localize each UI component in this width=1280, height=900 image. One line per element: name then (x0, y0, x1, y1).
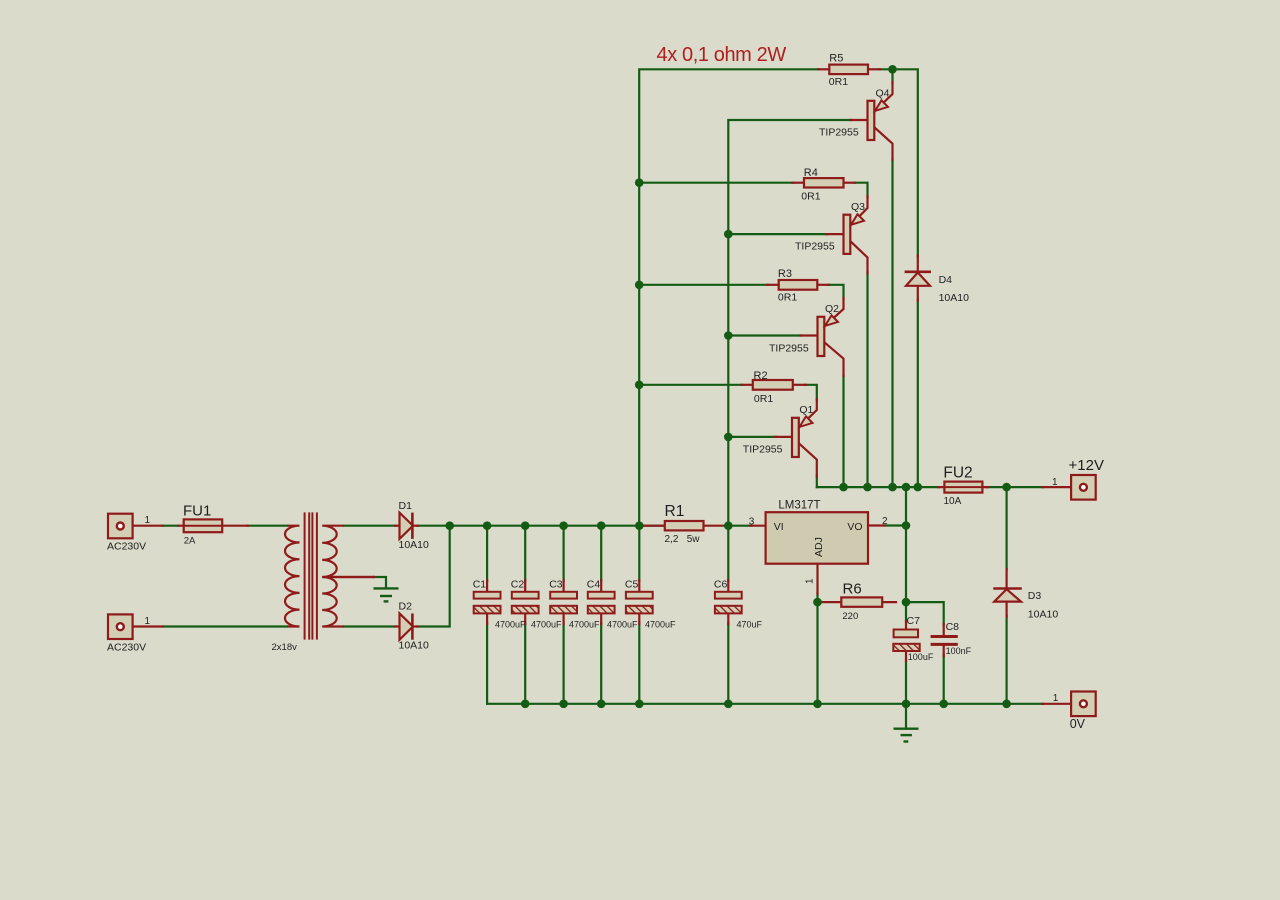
pin R5 left stub (818, 68, 829, 70)
node ground rail C5 (635, 700, 644, 709)
svg-text:AC230V: AC230V (107, 642, 146, 654)
svg-text:ADJ: ADJ (813, 537, 825, 557)
svg-text:2A: 2A (184, 536, 196, 547)
fuse FU2 (944, 482, 982, 493)
svg-text:0R1: 0R1 (801, 191, 820, 203)
transformer core lines (305, 512, 317, 639)
svg-text:0R1: 0R1 (754, 393, 773, 405)
wire Q3 collector to rail (866, 273, 868, 488)
pin D4 top stub (917, 255, 919, 271)
svg-text:2x18v: 2x18v (272, 642, 298, 653)
diode D2 (400, 613, 414, 639)
svg-text:4x 0,1 ohm 2W: 4x 0,1 ohm 2W (657, 44, 787, 66)
wire C7 bottom stem (905, 660, 907, 704)
pin C3 top stub (562, 580, 564, 592)
wire R3 row from left rail (639, 284, 768, 286)
pin C4 top stub (600, 580, 602, 592)
wire VO pin to vertical (884, 524, 906, 526)
pin R4 right stub (844, 182, 856, 184)
pin D1 cathode stub (413, 525, 418, 527)
svg-text:4700uF: 4700uF (495, 620, 526, 630)
wire base Q1 (728, 436, 776, 438)
node ground rail C8 (939, 700, 948, 709)
wire R6 right node to C8 top corner (906, 602, 944, 625)
resistor R4 (804, 178, 844, 187)
wire R2 right corner down to Q1 emitter (805, 385, 817, 400)
node ground rail C4 (597, 700, 606, 709)
wire Q2 collector to rail (842, 375, 844, 487)
pin R6 right stub (882, 601, 896, 603)
pin R3 left stub (767, 284, 779, 286)
node ground rail D3 (1002, 700, 1011, 709)
svg-text:10A10: 10A10 (399, 640, 430, 652)
svg-text:Q2: Q2 (825, 303, 839, 315)
pin R4 left stub (793, 182, 805, 184)
pin R2 right stub (793, 384, 806, 386)
pin D4 bottom stub (917, 286, 919, 301)
svg-text:100uF: 100uF (908, 652, 934, 662)
wire ADJ node down to bottom rail (816, 602, 818, 704)
node left rail R4 row (635, 178, 644, 187)
node ground rail C2 (521, 700, 530, 709)
fuse FU1 (184, 519, 223, 532)
capacitor C1 (474, 592, 501, 614)
wire C6 bottom stem (727, 623, 729, 704)
svg-text:4700uF: 4700uF (569, 620, 600, 630)
capacitor C5 (626, 592, 653, 614)
svg-text:C1: C1 (473, 579, 487, 591)
wire D2 cathode up to node A (417, 526, 450, 627)
diode D1 (400, 513, 414, 539)
resistor R6 (841, 597, 882, 606)
pin C1 bottom stub (486, 614, 488, 625)
diode D3 (993, 589, 1022, 602)
svg-text:3: 3 (749, 516, 755, 527)
wire C3 top stem (562, 526, 564, 581)
transistor Q4 body (868, 100, 889, 140)
wire Q4 collector to rail (891, 159, 893, 488)
pin Q2 emitter lead (825, 298, 844, 326)
node base rail Q3 (724, 230, 733, 239)
pin +12V terminal stub (1042, 486, 1070, 488)
pin C5 top stub (638, 580, 640, 592)
node C5 left-rail bus junction (635, 521, 644, 530)
pin Q4 collector lead (875, 127, 893, 159)
terminal T1 AC230V top (108, 514, 133, 539)
transistor Q1 body (792, 416, 813, 457)
pin C2 top stub (524, 580, 526, 592)
wire R5 right to Q4 emitter junction and D4 branch (879, 69, 918, 256)
diode D4 (905, 272, 931, 286)
wire R2 row from left rail (639, 384, 742, 386)
svg-text:TIP2955: TIP2955 (795, 240, 835, 252)
pin Q4 emitter lead (875, 82, 893, 111)
svg-text:1: 1 (1053, 693, 1059, 704)
wire R4 right corner down to Q3 emitter (854, 183, 868, 197)
node R5 right junction (888, 65, 897, 74)
pin FU2 through-line (938, 486, 988, 488)
wire R6 node down to C7 (905, 602, 907, 622)
wire bottom ground rail (487, 703, 1043, 705)
svg-text:1: 1 (805, 578, 816, 584)
pin Q3 emitter lead (851, 196, 868, 225)
pin Q4 base stub (851, 119, 868, 121)
svg-text:D3: D3 (1028, 590, 1042, 602)
svg-text:Q3: Q3 (851, 201, 865, 213)
wire FU2 to D3 node (987, 486, 1007, 488)
pin D3 bottom stub (1005, 602, 1007, 617)
capacitor C6 (715, 592, 742, 614)
svg-text:C4: C4 (587, 579, 601, 591)
node base rail Q2 (724, 331, 733, 340)
node C3 bus junction (559, 521, 568, 530)
pin C6 bottom stub (727, 614, 729, 625)
svg-text:100nF: 100nF (946, 646, 972, 656)
svg-text:TIP2955: TIP2955 (769, 343, 809, 355)
node R1 right C6 junction (724, 521, 733, 530)
svg-text:4700uF: 4700uF (645, 620, 676, 630)
terminal T2 AC230V bottom (108, 614, 133, 639)
wire VO vertical to rail (905, 487, 907, 525)
ground at transformer center tap (374, 588, 399, 601)
svg-text:10A10: 10A10 (939, 292, 970, 304)
svg-text:TIP2955: TIP2955 (819, 127, 859, 139)
wire C8 bottom stem (943, 655, 945, 704)
svg-text:4700uF: 4700uF (607, 620, 638, 630)
svg-text:1: 1 (145, 616, 151, 627)
node base rail Q1 (724, 433, 733, 442)
wire C3 bottom stem (562, 623, 564, 704)
svg-text:+12V: +12V (1069, 457, 1104, 474)
resistor R3 (779, 280, 818, 290)
wire Q1 collector to rail (816, 476, 818, 488)
node left rail R2 row (635, 381, 644, 390)
svg-text:R6: R6 (843, 580, 862, 597)
wire D4 bottom to rail (917, 300, 919, 487)
svg-text:TIP2955: TIP2955 (743, 444, 783, 456)
node rail Q2 collector (839, 483, 848, 492)
transformer secondary winding top (322, 526, 375, 577)
svg-text:D4: D4 (939, 274, 953, 286)
node rail VO vertical (902, 483, 911, 492)
pin Q1 collector lead (799, 443, 817, 476)
pin Q1 emitter lead (799, 399, 817, 427)
wire T1 to FU1 (162, 525, 179, 527)
wire C5 bottom stem (638, 623, 640, 704)
pin D3 top stub (1005, 569, 1007, 588)
wire center tap to ground (374, 577, 386, 588)
svg-text:4700uF: 4700uF (531, 620, 562, 630)
wire collector rail (817, 486, 939, 488)
pin C3 bottom stub (562, 614, 564, 625)
wire C2 bottom stem (524, 623, 526, 704)
wire R4 row from left rail (639, 182, 793, 184)
wire C1 bottom stem to rail corner (486, 623, 488, 704)
capacitor C4 (588, 592, 615, 614)
svg-text:0R1: 0R1 (778, 292, 797, 304)
pin FU1 through-line (178, 525, 248, 527)
pin C7 bottom stub (905, 651, 907, 661)
svg-text:C6: C6 (714, 579, 728, 591)
svg-text:Q1: Q1 (799, 404, 813, 416)
transistor Q3 body (844, 214, 865, 254)
pin C7 top stub (905, 621, 907, 630)
wire C4 bottom stem (600, 623, 602, 704)
node left rail R3 row (635, 281, 644, 290)
transformer secondary winding bottom (322, 577, 375, 627)
node C4 bus junction (597, 521, 606, 530)
svg-text:LM317T: LM317T (778, 499, 820, 511)
pin LM317 VO stub (868, 524, 885, 526)
transformer TR primary winding (285, 526, 300, 627)
svg-text:220: 220 (842, 611, 858, 622)
svg-text:R1: R1 (665, 503, 685, 520)
wire VI pin from bus (728, 525, 751, 527)
pin R6 left stub (818, 601, 842, 603)
pin T1 terminal stub (134, 525, 163, 527)
svg-text:R5: R5 (829, 53, 843, 65)
svg-text:C8: C8 (946, 621, 960, 633)
svg-text:10A10: 10A10 (399, 539, 430, 551)
node rail D3 (1002, 483, 1011, 492)
svg-text:VO: VO (847, 521, 862, 533)
svg-text:C7: C7 (907, 615, 921, 627)
terminal +12V (1071, 475, 1096, 500)
pin Q1 base stub (775, 436, 792, 438)
node rail Q4 collector (888, 483, 897, 492)
pin C6 top stub (727, 580, 729, 592)
pin C4 bottom stub (600, 614, 602, 625)
svg-text:10A10: 10A10 (1028, 608, 1059, 620)
wire ground stem at C7 (905, 704, 907, 729)
wire VO vertical down to R6 node (905, 526, 907, 603)
svg-text:VI: VI (774, 521, 784, 533)
node ground rail ADJ (813, 700, 822, 709)
wire FU1 to transformer primary (247, 525, 287, 527)
node C2 bus junction (521, 521, 530, 530)
svg-text:FU1: FU1 (183, 503, 211, 520)
pin C8 top stub (943, 624, 945, 635)
svg-text:10A: 10A (944, 496, 962, 507)
wire C5 top stem (638, 526, 640, 581)
pin R1 left stub (639, 525, 665, 527)
wire D3 node to +12V terminal (1007, 486, 1043, 488)
pin R3 right stub (817, 284, 829, 286)
pin C2 bottom stub (524, 614, 526, 625)
wire T2 to transformer primary bottom (162, 625, 287, 627)
svg-text:0R1: 0R1 (829, 76, 848, 88)
capacitor C2 (512, 592, 539, 614)
pin R5 right stub (868, 68, 880, 70)
wire base rail x728 (728, 120, 851, 526)
pin 0V terminal stub (1042, 703, 1070, 705)
wire D3 top from collector rail node (1005, 487, 1007, 570)
wire C2 top stem (524, 526, 526, 581)
pin C5 bottom stub (638, 614, 640, 625)
svg-text:C2: C2 (511, 579, 525, 591)
wire R3 right corner down to Q2 emitter (828, 285, 844, 299)
resistor R1 (665, 521, 704, 530)
svg-text:C5: C5 (625, 579, 639, 591)
pin C1 top stub (486, 580, 488, 592)
ground at C7 bottom (894, 729, 919, 742)
svg-text:R3: R3 (778, 268, 792, 280)
wire transformer secondary top to D1 anode (344, 525, 396, 527)
pin LM317 VI stub (750, 525, 766, 527)
node ground rail C3 (559, 700, 568, 709)
fuse FU2 element line (944, 486, 982, 488)
wire transformer secondary bottom to D2 anode (344, 625, 396, 627)
svg-text:470uF: 470uF (737, 620, 763, 630)
capacitor C8 (931, 637, 958, 645)
svg-text:1: 1 (145, 515, 151, 526)
svg-text:0V: 0V (1070, 717, 1086, 731)
svg-text:FU2: FU2 (943, 465, 972, 482)
node C1 bus junction (483, 521, 492, 530)
capacitor C3 (550, 592, 577, 614)
node ADJ R6 junction (813, 598, 822, 607)
node A D1/D2 junction (445, 521, 454, 530)
pin Q2 collector lead (825, 342, 844, 376)
terminal 0V (1071, 692, 1096, 717)
svg-text:1: 1 (1052, 477, 1058, 488)
node R6 right C7 junction (902, 598, 911, 607)
pin D2 anode stub (395, 625, 400, 627)
pin C8 bottom stub (943, 646, 945, 656)
node ground rail C6 (724, 700, 733, 709)
svg-text:C3: C3 (549, 579, 563, 591)
svg-text:AC230V: AC230V (107, 541, 146, 553)
node VO pin junction (902, 521, 911, 530)
node ground rail C7 (902, 700, 911, 709)
pin Q2 base stub (801, 334, 818, 336)
transistor Q2 body (818, 315, 839, 356)
pin D2 cathode stub (413, 625, 418, 627)
wire main bus node A to R1 (450, 525, 665, 527)
wire ADJ pin to R6 node (816, 593, 818, 602)
pin Q3 collector lead (851, 241, 868, 273)
fuse FU1 through line (184, 525, 223, 527)
pin Q3 base stub (827, 233, 844, 235)
wire left rail x639 (639, 69, 819, 525)
svg-text:D1: D1 (399, 500, 413, 512)
wire Q4 emitter up-stub (891, 69, 893, 83)
wire base Q2 (728, 334, 801, 336)
wire D1 cathode to node A (417, 525, 450, 527)
wire D3 bottom to rail (1005, 616, 1007, 704)
wire C6 top stem (727, 526, 729, 581)
wire base Q3 (728, 233, 827, 235)
regulator U1 LM317T body (766, 512, 868, 564)
node rail Q3 collector (863, 483, 872, 492)
resistor R2 (753, 380, 793, 390)
resistor R5 (829, 65, 868, 75)
svg-text:D2: D2 (399, 601, 413, 613)
svg-text:R2: R2 (754, 370, 768, 382)
pin T2 terminal stub (134, 625, 163, 627)
svg-text:Q4: Q4 (876, 88, 890, 100)
node rail D4 (914, 483, 923, 492)
pin R1 right stub (704, 525, 729, 527)
wire C4 top stem (600, 526, 602, 581)
wire C1 top stem (486, 526, 488, 581)
pin R2 left stub (742, 384, 753, 386)
svg-text:2: 2 (882, 516, 888, 527)
svg-text:R4: R4 (804, 167, 818, 179)
svg-text:2,2 5w: 2,2 5w (665, 534, 701, 545)
capacitor C7 (893, 630, 919, 652)
pin LM317 ADJ stub (816, 564, 818, 594)
pin D1 anode stub (395, 525, 400, 527)
